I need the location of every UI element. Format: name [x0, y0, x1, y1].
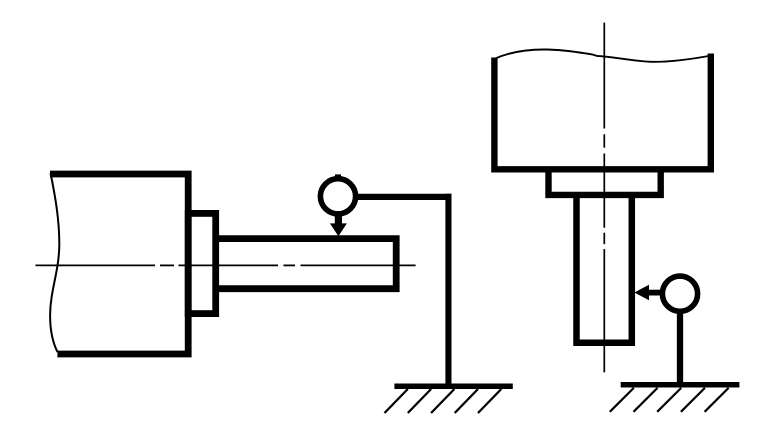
- headstock break line (wavy left edge): [50, 173, 59, 352]
- dial indicator left contact arrow: [330, 223, 347, 236]
- ground hatching left: [385, 389, 502, 413]
- dial indicator right contact arrow: [634, 285, 649, 301]
- spindle head break line (wavy top edge): [493, 49, 712, 61]
- vertical spindle head body (right): [494, 54, 710, 170]
- stand base line right: [621, 382, 740, 388]
- stand column right: [677, 311, 683, 385]
- vertical test mandrel (bar): [577, 197, 632, 343]
- indicator holder arm (horizontal link): [356, 194, 452, 200]
- stand column left: [445, 194, 451, 387]
- test mandrel (horizontal bar): [216, 239, 397, 289]
- horizontal centerline: [36, 264, 416, 266]
- headstock body (left spindle housing): [50, 174, 188, 354]
- dial indicator right (gauge circle): [662, 276, 697, 311]
- vertical centerline: [603, 23, 605, 373]
- stand base line left: [394, 383, 512, 389]
- spindle nose flange: [188, 213, 216, 313]
- ground hatching right: [610, 388, 729, 412]
- vertical spindle flange: [549, 170, 661, 195]
- dial indicator right plunger stem: [648, 290, 661, 296]
- dial indicator left (gauge circle): [320, 179, 355, 214]
- dial indicator left plunger stem: [335, 211, 342, 225]
